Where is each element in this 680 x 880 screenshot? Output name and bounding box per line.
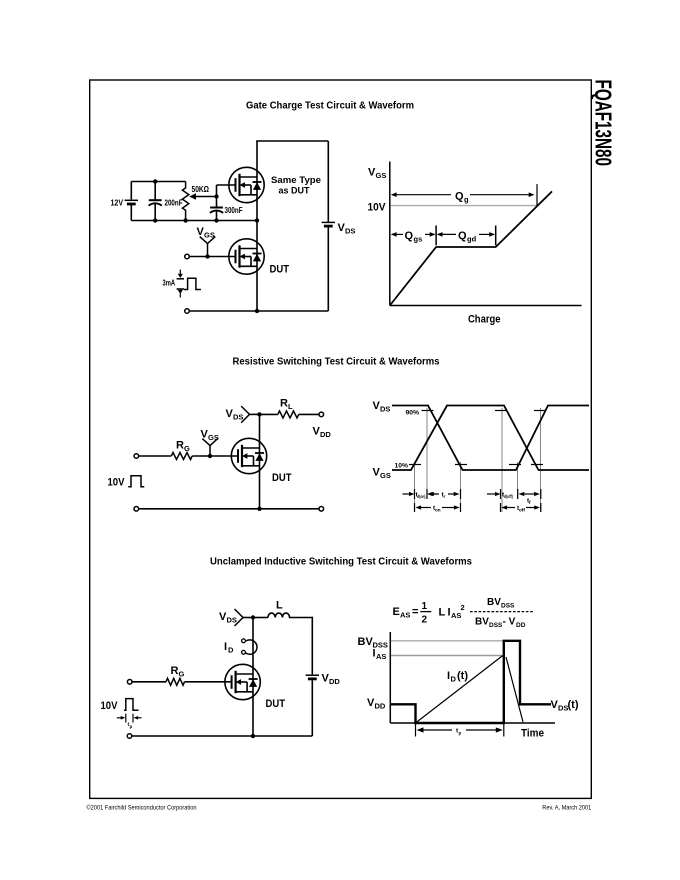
plot1 tick Qgd: [495, 226, 497, 246]
wire: inductor to right rail: [289, 617, 313, 619]
timing arrow tr: [428, 492, 434, 496]
node: junction VGS probe: [208, 454, 212, 458]
svg-text:p: p: [130, 724, 133, 729]
svg-text:FQAF13N80: FQAF13N80: [591, 80, 617, 167]
node: junction source at bottom wire: [251, 734, 255, 738]
timing bar tf right: [540, 489, 542, 499]
timing arrow tf double: [519, 492, 525, 496]
waveform2 10% tick 1: [409, 464, 421, 466]
terminal: bottom left open circle: [134, 507, 139, 512]
svg-text:GS: GS: [376, 171, 387, 180]
wire: probe to node: [243, 617, 253, 619]
current source pulse glyph: [184, 278, 201, 289]
wire: node to RL: [260, 413, 278, 415]
transistor DUT: [225, 664, 260, 699]
transistor DUT: [231, 438, 266, 473]
wire: top rail of bias box: [131, 181, 185, 183]
plot1 Qg tick: [536, 184, 538, 206]
waveform2 90% tick 1: [422, 410, 434, 412]
svg-text:10V: 10V: [108, 477, 126, 489]
wire: 300nF bottom lead: [216, 211, 218, 220]
wire: input to RG: [132, 681, 166, 683]
svg-text:200nF: 200nF: [165, 198, 183, 208]
svg-text:1: 1: [422, 601, 428, 612]
svg-text:d(off): d(off): [504, 494, 513, 499]
svg-text:AS: AS: [451, 611, 461, 620]
svg-text:GS: GS: [204, 231, 215, 240]
node: junction drain node: [257, 412, 261, 416]
wire: drain rail up to node: [252, 618, 254, 701]
svg-text:Rev. A, March 2001: Rev. A, March 2001: [542, 805, 591, 812]
probe VGS stem: [209, 446, 211, 456]
wire: 200nF top lead: [154, 182, 156, 200]
svg-text:DD: DD: [516, 622, 526, 629]
svg-text:GS: GS: [380, 471, 391, 480]
plot1 tick Qgs: [435, 226, 437, 246]
battery VDS plate long: [322, 221, 335, 223]
svg-text:DD: DD: [375, 702, 386, 711]
wire: right rail lower: [311, 680, 313, 736]
svg-text:DS: DS: [345, 227, 355, 236]
terminal: bottom left open circle: [127, 734, 132, 739]
svg-text:Q: Q: [405, 230, 414, 242]
wire: source rail down: [259, 474, 261, 509]
svg-text:L: L: [439, 607, 446, 619]
svg-text:300nF: 300nF: [225, 205, 243, 215]
plot3 x-axis: [390, 722, 555, 724]
probe VDS vee sideways: [235, 609, 244, 626]
svg-text:3mA: 3mA: [163, 278, 176, 288]
timing arrow td(off): [487, 493, 496, 495]
terminal: gate input open circle: [127, 680, 132, 685]
node: junction mid rail: [255, 218, 259, 222]
svg-text:E: E: [393, 606, 400, 618]
node: junction 200nF top: [153, 179, 157, 183]
waveform2 10% tick 3: [509, 464, 521, 466]
wire: wiper to junction: [196, 196, 217, 198]
current loop ID: small circle top: [242, 639, 246, 643]
svg-text:(t): (t): [457, 670, 468, 682]
plot3 ID falling line: [506, 657, 523, 722]
capacitor C 200nF plate curved: [149, 203, 162, 205]
wire: bottom return wire: [132, 735, 313, 737]
svg-text:- V: - V: [503, 617, 516, 628]
wire: DUT gate wire: [189, 256, 236, 258]
capacitor C 300nF plate straight: [210, 207, 223, 209]
wire: right rail upper (to VDS battery): [327, 141, 329, 222]
wire: gate wire to Q1: [217, 184, 236, 186]
plot3 IAS gray level line: [391, 655, 502, 657]
wire: RG to gate: [185, 681, 232, 683]
svg-text:L: L: [276, 600, 283, 612]
wire: probe to node: [250, 413, 260, 415]
svg-text:90%: 90%: [406, 410, 420, 417]
svg-text:DS: DS: [227, 616, 237, 625]
svg-text:Time: Time: [521, 728, 544, 740]
pulse glyph 10V: [124, 699, 139, 711]
svg-text:DS: DS: [233, 413, 243, 422]
waveform2 90% tick 3: [534, 410, 546, 412]
svg-text:r: r: [444, 494, 446, 499]
wire: bottom return wire: [189, 310, 328, 312]
svg-text:DUT: DUT: [266, 698, 286, 710]
wire: source rail down: [252, 700, 254, 736]
wire: wiper column up to gate level: [216, 185, 218, 197]
svg-text:off: off: [519, 508, 525, 513]
transistor Q1 same type as DUT: [229, 167, 264, 202]
svg-text:g: g: [464, 195, 469, 204]
svg-text:Gate Charge Test Circuit & Wav: Gate Charge Test Circuit & Waveform: [246, 101, 414, 112]
wire: 200nF bottom lead: [154, 204, 156, 221]
plot1 y-axis: [389, 162, 391, 306]
svg-text:G: G: [179, 670, 185, 679]
wire: bottom return wire: [139, 508, 320, 510]
plot1 Qg arrow: [392, 194, 451, 196]
resistor RG: [166, 678, 185, 685]
resistor RG: [171, 453, 192, 460]
plot1 gate charge curve: [390, 191, 552, 305]
waveform2 10% tick 2: [455, 464, 467, 466]
plot3 tp arrow: [417, 727, 424, 732]
svg-text:BV: BV: [475, 617, 489, 628]
tp mark bar left: [125, 714, 127, 723]
potentiometer wiper arrow: [189, 193, 196, 200]
probe VGS stem: [207, 244, 209, 257]
plot3 y-axis: [389, 632, 391, 723]
waveform2 guide line 2: [426, 408, 428, 499]
terminal: bottom open circle: [185, 309, 190, 314]
svg-text:on: on: [435, 508, 441, 513]
svg-text:p: p: [459, 731, 462, 736]
svg-text:R: R: [280, 398, 288, 410]
wire: right rail upper: [311, 617, 313, 675]
svg-text:f: f: [529, 500, 531, 505]
svg-text:DUT: DUT: [272, 472, 292, 484]
probe VGS vee: [202, 439, 217, 446]
node: junction source at bottom wire: [257, 507, 261, 511]
resistor RL: [278, 411, 299, 418]
waveform2 guide line 1: [414, 462, 416, 512]
wire: top loop wire: [256, 140, 328, 142]
waveform2 VGS trace: [392, 406, 589, 471]
probe VGS vee: [200, 237, 216, 244]
wire: drain rail top (Q1 to top wire): [256, 141, 258, 221]
wire: rail Q1 source to DUT drain: [256, 221, 258, 312]
capacitor C 200nF plate straight: [149, 199, 162, 201]
terminal: VDD open circle: [319, 412, 324, 417]
battery VDD plate long: [306, 674, 319, 676]
timing bar tr right: [460, 489, 462, 499]
waveform2 10% tick 4: [531, 464, 543, 466]
node: junction drain node: [251, 615, 255, 619]
node: junction pot bottom: [183, 218, 187, 222]
svg-text:Charge: Charge: [468, 314, 501, 326]
plot3 ID(t) rising line: [416, 656, 503, 724]
svg-text:(t): (t): [568, 699, 579, 711]
svg-text:2: 2: [422, 615, 428, 626]
current source arrow top: [179, 270, 181, 275]
svg-text:DS: DS: [380, 405, 390, 414]
svg-text:Q: Q: [455, 191, 464, 203]
battery VDS plate short thick: [324, 225, 333, 228]
inductor L coil: [268, 613, 290, 617]
svg-text:gd: gd: [467, 235, 477, 244]
wire: right rail lower: [327, 228, 329, 312]
svg-text:G: G: [184, 444, 190, 453]
svg-text:Q: Q: [458, 230, 467, 242]
svg-text:I: I: [224, 641, 227, 653]
svg-text:DSS: DSS: [501, 603, 515, 610]
formula dashed fraction bar: [470, 611, 534, 613]
wire: left vertical (12V branch) upper: [130, 182, 132, 200]
timing bars t_on row: [414, 503, 416, 512]
wire: left vertical (12V branch) lower: [130, 205, 132, 221]
wire: RG to gate: [192, 455, 239, 457]
svg-text:BV: BV: [358, 636, 374, 648]
svg-text:DD: DD: [320, 430, 331, 439]
node: junction wiper column: [214, 194, 218, 198]
svg-text:d(on): d(on): [417, 494, 426, 499]
pulse glyph 10V: [128, 476, 144, 487]
svg-text:DSS: DSS: [489, 622, 503, 629]
svg-text:D: D: [228, 646, 234, 655]
waveform2 guide line 3: [460, 462, 462, 512]
transistor DUT: [229, 239, 264, 274]
page border frame: [90, 80, 592, 798]
waveform2 90% tick 2: [495, 410, 507, 412]
current loop ID: arc: [246, 640, 257, 654]
battery VDD plate short thick: [308, 678, 317, 681]
svg-text:DD: DD: [329, 677, 340, 686]
plot1 Qgs arrow: [392, 233, 403, 235]
plot3 VDS(t) thick trace: [390, 641, 551, 723]
waveform2 guide line 5: [517, 462, 519, 499]
timing arrow ton: [415, 505, 421, 509]
current loop ID: small circle bottom: [242, 650, 246, 654]
svg-text:©2001 Fairchild Semiconductor: ©2001 Fairchild Semiconductor Corporatio…: [87, 804, 197, 812]
waveform2 guide line 4: [501, 408, 503, 512]
plot3 tp bar left: [415, 724, 417, 737]
node: junction 300nF bottom: [214, 218, 218, 222]
wire: input to RG: [139, 455, 172, 457]
timing bars toff row: [500, 503, 502, 512]
battery 12V plate long: [125, 199, 138, 201]
node: junction 200nF bottom: [153, 218, 157, 222]
timing arrow toff: [501, 505, 507, 509]
wire: RL to VDD terminal: [299, 413, 319, 415]
node: junction VGS probe: [205, 254, 209, 258]
wire: node to inductor: [253, 617, 268, 619]
svg-text:AS: AS: [376, 652, 386, 661]
terminal: gate input open circle: [134, 454, 139, 459]
svg-text:10%: 10%: [395, 463, 409, 470]
tp mark arrow left: [117, 717, 122, 719]
plot3 BVDSS gray level line: [391, 640, 504, 642]
svg-text:R: R: [176, 440, 184, 452]
timing arrow td(on): [403, 493, 411, 495]
wire: bottom rail of bias box: [131, 220, 257, 222]
svg-text:50KΩ: 50KΩ: [192, 184, 210, 194]
capacitor C 300nF plate curved: [210, 211, 223, 213]
node: junction DUT source at bottom wire: [255, 309, 259, 313]
svg-text:R: R: [171, 665, 179, 677]
svg-text:10V: 10V: [368, 202, 387, 214]
svg-text:Resistive Switching Test Circu: Resistive Switching Test Circuit & Wavef…: [233, 357, 440, 368]
battery 12V plate short thick: [127, 203, 136, 206]
svg-text:gs: gs: [414, 235, 423, 244]
svg-text:10V: 10V: [101, 700, 119, 712]
waveform2 guide line 6: [540, 408, 542, 512]
svg-text:12V: 12V: [111, 198, 124, 208]
tp mark arrow right: [134, 716, 139, 720]
waveform2 VDS trace: [392, 406, 589, 471]
plot1 10V gray level line: [391, 205, 539, 207]
svg-text:=: =: [412, 606, 418, 618]
svg-text:DUT: DUT: [270, 264, 290, 276]
timing bar td(on) left: [414, 489, 416, 499]
terminal: gate input open circle: [185, 254, 190, 259]
tp mark bar right: [132, 714, 134, 723]
svg-text:L: L: [288, 402, 293, 411]
svg-text:D: D: [451, 675, 457, 684]
plot3 tp bar right: [503, 724, 505, 737]
probe VDS vee sideways: [241, 406, 249, 423]
svg-text:Same Type: Same Type: [271, 175, 321, 185]
svg-text:as DUT: as DUT: [279, 186, 310, 196]
terminal: bottom right open circle: [319, 507, 324, 512]
wire: drain rail up to node: [259, 414, 261, 473]
resistor potentiometer 50K zigzag: [182, 182, 188, 221]
svg-text:BV: BV: [487, 597, 501, 608]
plot1 x-axis: [390, 305, 582, 307]
svg-text:2: 2: [461, 603, 465, 612]
current source arrow bottom: [177, 288, 184, 290]
timing bars right group row1: [500, 489, 502, 499]
svg-text:Unclamped Inductive Switching: Unclamped Inductive Switching Test Circu…: [210, 557, 472, 568]
wire: wiper column down to 300nF: [216, 197, 218, 208]
plot1 Qgd arrow: [438, 233, 456, 235]
svg-text:GS: GS: [208, 433, 219, 442]
svg-text:AS: AS: [400, 611, 410, 620]
